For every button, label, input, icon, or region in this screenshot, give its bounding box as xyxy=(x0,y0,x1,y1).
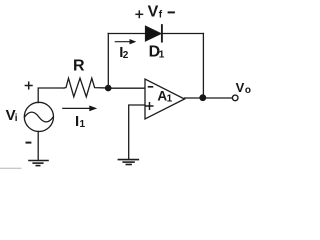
wire Vi top lead to resistor xyxy=(38,88,64,103)
label Vo xyxy=(236,80,251,96)
polarity + of Vi xyxy=(25,82,32,89)
wire feedback top right segment xyxy=(163,33,204,35)
label Vi xyxy=(6,107,18,124)
label I2 xyxy=(119,44,128,61)
ground (non-inverting input) xyxy=(118,160,138,165)
label D1 xyxy=(149,43,165,60)
diode D1 xyxy=(145,25,162,41)
op-amp inverting input marker - xyxy=(149,86,153,88)
svg-text:V: V xyxy=(236,80,245,95)
svg-text:R: R xyxy=(73,57,85,74)
svg-text:f: f xyxy=(159,10,163,21)
label A1 xyxy=(157,89,172,105)
polarity + of Vf xyxy=(136,11,142,17)
op-amp non-inverting input marker + xyxy=(146,103,153,110)
voltage source Vi xyxy=(24,102,53,131)
polarity - of Vi xyxy=(27,142,31,144)
wire op-amp output xyxy=(185,97,233,99)
wire feedback right vertical xyxy=(202,34,204,98)
ground (below source) xyxy=(29,161,48,166)
polarity - of Vf xyxy=(169,11,174,13)
resistor R xyxy=(64,78,105,97)
wire node to op-amp inverting input xyxy=(108,87,145,89)
wire Vi bottom lead xyxy=(37,131,39,160)
svg-text:i: i xyxy=(15,113,18,124)
current arrow I2 xyxy=(115,39,136,44)
op-amp A1 xyxy=(145,79,185,119)
output node junction xyxy=(199,94,206,101)
wire feedback left vertical xyxy=(107,34,109,89)
svg-text:1: 1 xyxy=(167,94,173,105)
svg-text:1: 1 xyxy=(80,119,86,130)
svg-text:2: 2 xyxy=(123,50,129,61)
scan artifact xyxy=(0,167,21,169)
svg-text:V: V xyxy=(148,3,159,20)
wire non-inverting input to ground xyxy=(129,105,145,159)
label I1 xyxy=(75,113,86,130)
svg-text:1: 1 xyxy=(159,49,165,60)
current arrow I1 xyxy=(63,106,97,112)
label Vf xyxy=(148,3,163,20)
node A inverting-input junction xyxy=(105,85,112,92)
output terminal Vo xyxy=(232,95,238,101)
svg-text:o: o xyxy=(245,85,251,96)
wire feedback top left segment xyxy=(108,33,145,35)
